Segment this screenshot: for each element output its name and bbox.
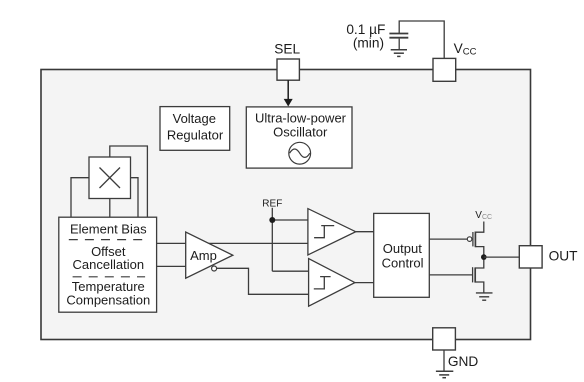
wire: output control to NMOS gate [429,274,472,276]
wire: REF to upper comparator [272,219,308,221]
svg-text:Control: Control [382,256,424,271]
svg-text:Cancellation: Cancellation [73,257,145,272]
svg-text:SEL: SEL [274,41,300,56]
ground (output stage) [476,292,493,294]
oscillator sine symbol [289,142,311,164]
pin GND [433,328,456,350]
wire: REF to lower comparator [272,270,308,272]
svg-text:VCC: VCC [454,41,477,58]
svg-text:Oscillator: Oscillator [273,125,328,140]
amp inverting output bubble [212,266,217,271]
element bias / offset cancellation / temperature compensation block [59,217,157,312]
svg-text:GND: GND [448,354,479,369]
wire: hall element top loop [110,146,148,217]
svg-text:(min): (min) [353,35,384,50]
svg-text:Regulator: Regulator [167,128,224,143]
wire: hall element right lead [131,178,139,218]
voltage regulator block [160,107,230,151]
svg-text:Element Bias: Element Bias [70,221,147,236]
hall element X1 [89,157,131,199]
capacitor C1 0.1uF [389,33,408,35]
oscillator block [246,107,352,168]
wire: output node to OUT pin [484,256,520,258]
wire: hall element bottom lead [109,199,111,218]
comparator U4 [309,259,355,307]
junction dot output node [481,254,487,260]
svg-text:Amp: Amp [190,248,217,263]
amp U2 [186,232,233,278]
wire: amp inverted output to lower comparator [217,268,309,294]
ground (decoupling cap) [391,49,407,51]
pin VCC [433,58,456,81]
transistor Q1 PMOS [467,237,472,242]
wire: REF vertical [271,208,273,271]
wire: lower comparator output [355,282,374,284]
IC body U1 [41,70,531,340]
transistor Q2 NMOS [472,267,474,282]
comparator U3 [308,209,356,255]
wire: GND pin to ground [443,350,445,371]
svg-text:Compensation: Compensation [66,292,150,307]
svg-text:Output: Output [383,241,422,256]
svg-text:Voltage: Voltage [173,111,216,126]
output control block [374,213,430,297]
wire: decoupling cap to VCC pin [399,21,444,58]
svg-text:REF: REF [262,198,282,209]
wire: output control to PMOS gate [429,238,467,240]
wire: upper comparator output [356,231,374,233]
ground (GND pin) [436,370,453,372]
pin OUT [519,246,542,268]
junction dot REF [269,217,275,223]
svg-text:Ultra-low-power: Ultra-low-power [255,110,347,125]
wire: SEL arrow into oscillator [287,80,289,99]
wire: amp bottom input [157,265,190,267]
wire: amp top signal to upper comparator [157,242,308,244]
svg-text:OUT: OUT [549,249,579,264]
pin SEL [277,59,299,80]
wire: hall element left lead [71,178,89,218]
